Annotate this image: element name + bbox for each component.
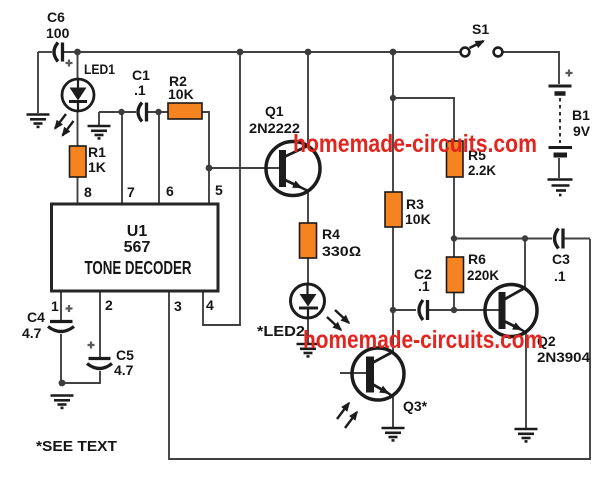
svg-text:5: 5 — [215, 182, 223, 198]
svg-text:10K: 10K — [168, 86, 194, 102]
svg-text:LED1: LED1 — [84, 61, 115, 77]
svg-text:S1: S1 — [472, 21, 489, 37]
svg-text:C3: C3 — [552, 251, 570, 267]
svg-text:8: 8 — [84, 184, 92, 200]
svg-text:C6: C6 — [47, 9, 65, 25]
svg-text:homemade-circuits.com: homemade-circuits.com — [293, 130, 537, 158]
svg-text:100: 100 — [46, 25, 70, 41]
svg-text:R6: R6 — [468, 251, 486, 267]
svg-text:9V: 9V — [573, 123, 591, 139]
svg-text:10K: 10K — [405, 211, 431, 227]
svg-text:1: 1 — [51, 298, 59, 314]
svg-text:TONE DECODER: TONE DECODER — [85, 258, 192, 278]
svg-text:C4: C4 — [27, 309, 45, 325]
svg-text:7: 7 — [127, 184, 135, 200]
svg-text:Q1: Q1 — [265, 103, 284, 119]
svg-text:B1: B1 — [572, 107, 590, 123]
svg-text:.1: .1 — [418, 278, 430, 294]
svg-text:1K: 1K — [88, 159, 106, 175]
svg-text:R3: R3 — [406, 196, 424, 212]
svg-text:C1: C1 — [132, 67, 150, 83]
svg-text:567: 567 — [124, 239, 151, 256]
svg-text:220K: 220K — [467, 267, 499, 283]
svg-text:R4: R4 — [322, 226, 340, 242]
svg-text:*SEE TEXT: *SEE TEXT — [36, 438, 117, 455]
svg-text:.1: .1 — [134, 82, 146, 98]
svg-text:*LED2: *LED2 — [257, 323, 305, 340]
svg-text:Q3*: Q3* — [403, 398, 428, 414]
svg-text:4.7: 4.7 — [114, 362, 134, 378]
svg-text:homemade-circuits.com: homemade-circuits.com — [303, 326, 543, 354]
svg-text:4: 4 — [206, 297, 214, 313]
svg-text:U1: U1 — [127, 223, 148, 240]
svg-text:C5: C5 — [116, 347, 134, 363]
svg-text:3: 3 — [174, 298, 182, 314]
svg-text:4.7: 4.7 — [22, 325, 42, 341]
svg-text:6: 6 — [166, 183, 174, 199]
svg-text:.1: .1 — [554, 268, 566, 284]
svg-text:2: 2 — [105, 297, 113, 313]
svg-text:2.2K: 2.2K — [468, 162, 496, 178]
svg-text:2N3904: 2N3904 — [537, 349, 590, 365]
svg-text:330Ω: 330Ω — [322, 243, 361, 259]
svg-text:R1: R1 — [88, 144, 106, 160]
